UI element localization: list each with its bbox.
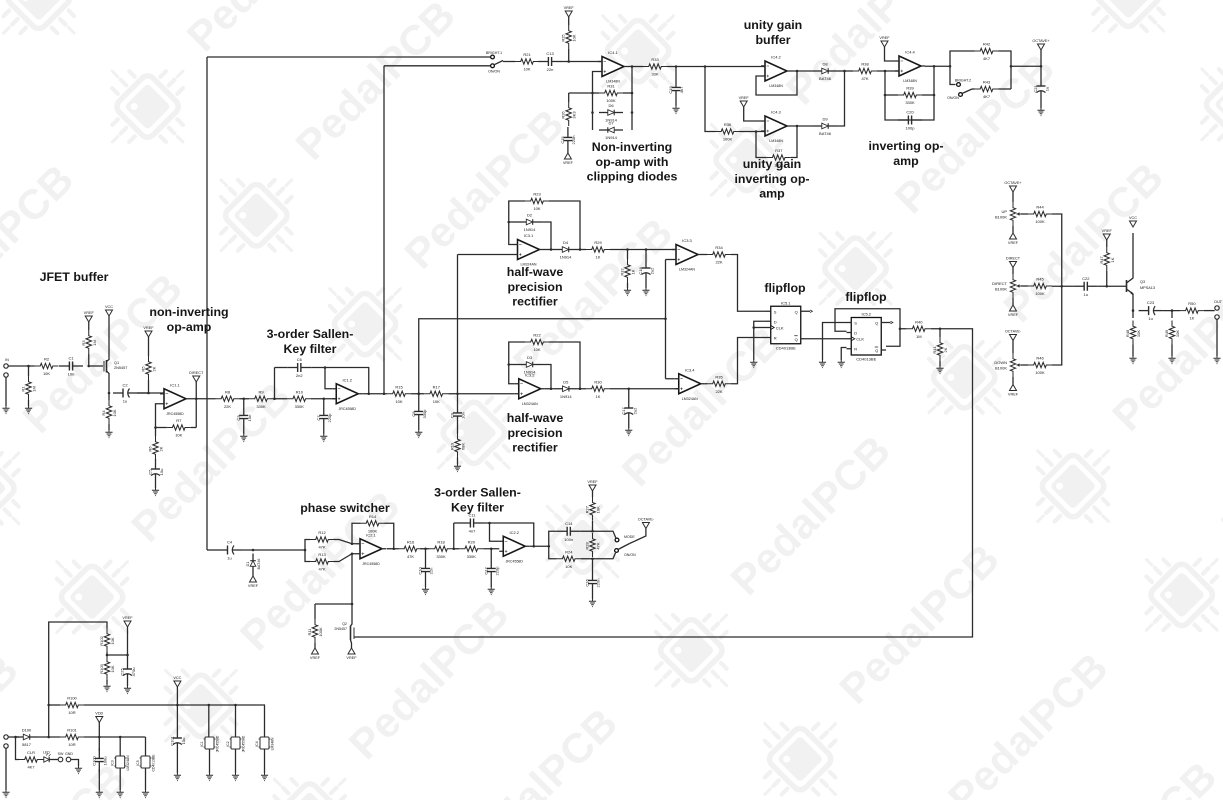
svg-text:1N914: 1N914 [524,227,537,232]
node [704,65,707,68]
svg-text:VDD: VDD [95,712,103,716]
wire long feedback B [383,66,385,394]
svg-text:IC3.1: IC3.1 [524,233,534,238]
ground [117,790,124,798]
svg-text:R47: R47 [1099,256,1104,264]
svg-text:C15: C15 [560,136,565,144]
ground [206,773,213,781]
wire [592,491,594,497]
terminal OCTAVE+ [1038,44,1045,50]
wire to phase switcher return [360,329,973,637]
node source [108,392,111,395]
svg-text:D5: D5 [563,379,569,384]
node [627,387,630,390]
svg-text:VREF: VREF [143,326,154,330]
wire [145,768,147,790]
svg-text:R28: R28 [585,542,590,550]
svg-text:2N5457: 2N5457 [114,366,127,370]
node [417,392,420,395]
resistor R13 [310,559,334,564]
svg-text:JRC4558D: JRC4558D [338,407,356,411]
node gate [87,365,90,368]
wire main vertical tap [457,255,459,394]
svg-text:JFET buffer: JFET buffer [40,270,109,284]
svg-text:220p: 220p [327,413,332,423]
svg-text:47K: 47K [861,76,868,81]
ground [124,686,131,694]
capacitor C8 [418,401,420,411]
svg-text:Q: Q [795,309,798,314]
resistor R30 [586,386,610,391]
resistor R29 [586,247,610,252]
capacitor C12 [490,558,492,568]
pad SW [58,757,63,762]
resistor R1 [26,376,31,400]
svg-text:R50: R50 [1188,301,1196,306]
svg-text:MPSA13: MPSA13 [1140,286,1155,290]
svg-text:100K: 100K [774,163,784,168]
op-amp IC4.3 [765,116,787,136]
svg-text:10u: 10u [159,469,164,476]
ground [2,790,9,798]
wire [1012,226,1014,233]
wire lower [549,546,557,559]
svg-text:1M: 1M [916,334,922,339]
resistor R45 [1028,283,1052,288]
svg-text:R37: R37 [775,148,783,153]
ground [625,428,632,436]
svg-text:Q: Q [795,337,798,342]
svg-text:inverting op-: inverting op- [868,139,943,153]
node [14,736,17,739]
svg-text:330K: 330K [256,404,266,409]
wire [667,66,765,68]
svg-text:VREF: VREF [879,36,890,40]
svg-text:VREF: VREF [1008,313,1019,317]
resistor R49 [1169,321,1174,345]
svg-text:B100K: B100K [995,366,1007,371]
capacitor C100 [98,748,100,758]
op-amp IC3.4 [679,374,701,394]
svg-text:LM348N: LM348N [271,737,275,750]
node output [367,392,370,395]
svg-text:220n: 220n [596,579,601,588]
terminal VREF [348,648,355,654]
wire up to C6 [274,368,276,399]
svg-text:R9: R9 [258,389,264,394]
svg-text:C19: C19 [668,86,673,94]
svg-text:C1: C1 [68,356,74,361]
wire [176,752,178,773]
wire minus input [325,368,332,389]
resistor R31 [599,90,623,95]
svg-text:unity gain: unity gain [743,157,802,171]
svg-text:10K: 10K [523,67,530,72]
svg-text:R11: R11 [307,628,312,636]
svg-text:DIRECT: DIRECT [992,281,1007,286]
terminal VREF [589,485,596,491]
node [949,65,952,68]
svg-text:2u2: 2u2 [650,267,655,274]
ground [1213,356,1220,364]
svg-text:VREF: VREF [248,584,259,588]
resistor R38 [853,68,877,73]
wire [71,760,79,767]
svg-text:10K: 10K [1136,330,1141,337]
wire split [305,540,310,551]
svg-text:10u: 10u [181,738,186,745]
wire [877,70,899,72]
ground [838,360,845,368]
wire [791,126,797,158]
svg-text:ON/ON: ON/ON [624,553,636,557]
wire [837,70,853,72]
wire [458,393,515,395]
svg-text:2K: 2K [159,446,164,451]
svg-text:D8: D8 [822,62,828,67]
wire converge [334,540,356,544]
IC1 power JRC4558D [205,737,214,749]
svg-text:UP: UP [1001,209,1007,214]
svg-text:SW: SW [58,752,64,756]
IC5 power CD4013BE [141,756,150,768]
wire [705,383,707,385]
svg-text:VREF: VREF [564,6,575,10]
svg-text:1u: 1u [1045,87,1050,91]
ground [672,106,679,114]
wire [593,92,600,94]
svg-text:IC4.3: IC4.3 [771,110,781,115]
resistor R43 [975,86,999,91]
svg-text:VREF: VREF [587,480,598,484]
ground [2,406,9,414]
wire [549,201,580,250]
ground [232,773,239,781]
terminal VREF [1103,234,1110,240]
wire [545,388,554,390]
jack OUT [1215,306,1219,310]
wire [106,680,108,684]
resistor R41 [937,337,942,361]
flip-flop IC5.1 CD4013BE [771,306,801,344]
svg-text:D1: D1 [246,562,250,567]
svg-text:1M: 1M [92,340,97,346]
svg-text:R31: R31 [607,84,615,89]
svg-text:C18: C18 [638,267,643,275]
svg-text:330K: 330K [905,100,915,105]
wire [418,425,420,430]
wire [628,422,630,428]
capacitor C4 [218,549,228,551]
svg-text:C100: C100 [91,755,96,765]
svg-text:C22: C22 [1082,276,1090,281]
resistor R6 [153,436,158,460]
wire [252,574,254,577]
potentiometer DOWN B100K [1010,353,1015,377]
svg-text:Key filter: Key filter [451,500,504,514]
svg-text:S: S [774,309,777,314]
wire minus [490,523,500,541]
potentiometer DIRECT B100K [1010,274,1015,298]
svg-text:4K7: 4K7 [27,765,35,770]
svg-text:1N914: 1N914 [524,370,537,375]
wire [119,768,121,790]
svg-text:10R: 10R [68,710,75,715]
wire tap left [569,92,593,94]
svg-text:470u: 470u [131,668,136,677]
wire long feedback A [206,57,208,550]
capacitor C9 [457,403,459,413]
ground [142,790,149,798]
svg-text:VREF: VREF [563,161,574,165]
capacitor C20 [898,119,908,121]
wire [8,365,34,367]
svg-text:C11: C11 [468,513,476,518]
svg-text:C3: C3 [236,415,241,421]
terminal DIRECT [193,376,200,382]
wire wiper [1021,364,1028,366]
op-amp IC4.1 [602,57,624,77]
resistor R25 [566,25,571,49]
terminal VREF [565,11,572,17]
wire [1098,285,1127,287]
node [154,426,157,429]
wire [610,388,679,390]
terminal OCTAVE+ right [1010,186,1017,192]
svg-text:220p: 220p [494,566,499,576]
wire [127,683,129,686]
node [417,392,420,395]
svg-text:IC5: IC5 [136,760,140,765]
wire [240,398,250,400]
wire Qbar to FF2 [806,338,847,340]
wire [315,603,352,605]
svg-text:R23: R23 [533,192,541,197]
svg-text:R: R [854,347,857,352]
resistor R39 [898,92,922,97]
svg-text:CD4013BE: CD4013BE [856,357,876,362]
svg-text:flipflop: flipflop [764,281,806,295]
node [591,530,594,533]
svg-text:R42: R42 [983,42,991,47]
svg-text:R17: R17 [433,384,441,389]
resistor R9 [249,396,273,401]
svg-text:R36: R36 [724,122,732,127]
svg-text:DIRECT: DIRECT [189,371,204,375]
node [507,363,510,366]
terminal VREF [85,316,92,322]
wire down [705,67,716,132]
svg-text:R33: R33 [651,57,659,62]
node [752,326,755,329]
capacitor C25 [127,659,129,669]
wire jack sleeve [5,748,7,790]
wire [1216,319,1218,356]
capacitor C22 [1074,285,1084,287]
svg-text:330K: 330K [436,554,446,559]
node [591,92,594,95]
node [351,542,354,545]
svg-text:2K: 2K [152,366,157,371]
node [488,522,491,525]
wire [549,342,580,389]
svg-text:CLK: CLK [856,337,864,342]
op-amp IC3.3 [676,245,698,265]
wire [593,553,616,559]
terminal VCC [1130,221,1137,227]
svg-text:R1: R1 [21,386,26,392]
op-amp IC4.4 [899,56,921,76]
wire up to C11 [453,523,455,549]
node [47,736,50,739]
svg-text:IC4: IC4 [255,741,259,746]
capacitor C17 [628,398,630,408]
svg-text:33K: 33K [651,72,658,77]
terminal VREF [312,648,319,654]
wire [148,337,150,356]
ground [589,599,596,607]
ground [1168,356,1175,364]
wire [311,368,369,394]
svg-text:1K: 1K [1189,316,1194,321]
svg-text:4K7: 4K7 [983,56,991,61]
capacitor C16 [592,570,594,580]
wire [567,151,569,153]
svg-text:R3: R3 [81,340,86,346]
wire input [458,254,514,256]
wire comparator rail [665,260,667,379]
svg-text:non-inverting: non-inverting [149,305,228,319]
svg-text:BRIGHT.1: BRIGHT.1 [486,51,502,55]
svg-text:R44: R44 [1036,205,1044,210]
capacitor C3 [243,405,245,415]
svg-text:buffer: buffer [755,33,790,47]
svg-text:10K: 10K [175,433,182,438]
wire [791,70,813,72]
svg-text:R40: R40 [915,319,923,324]
svg-text:10R: 10R [68,742,75,747]
wire [490,582,492,587]
ground [819,360,826,368]
svg-text:R7: R7 [176,418,182,423]
svg-text:VCC: VCC [105,305,113,309]
ground [75,766,82,774]
svg-text:R12: R12 [318,530,326,535]
svg-text:R34: R34 [715,245,723,250]
svg-text:68K: 68K [461,443,466,450]
terminal VREF [1010,233,1017,239]
wire [127,627,129,659]
svg-text:half-wave: half-wave [507,265,564,279]
svg-text:1M: 1M [32,386,37,392]
svg-text:precision: precision [507,426,562,440]
wire [209,749,211,773]
svg-text:100K: 100K [368,528,378,533]
svg-text:IC3.4: IC3.4 [685,367,695,372]
node [98,736,101,739]
svg-text:10K: 10K [572,34,577,41]
svg-text:op-amp with: op-amp with [596,155,669,169]
terminal DIRECT right [1010,262,1017,268]
svg-text:BAT46: BAT46 [819,76,832,81]
svg-text:1u: 1u [227,556,231,561]
wire feedback [756,71,797,95]
svg-text:VCC: VCC [1129,216,1137,220]
node [1010,65,1013,68]
node [47,704,50,707]
resistor R50 [1180,308,1204,313]
wire gate [89,365,103,367]
svg-text:330p: 330p [422,409,427,419]
wire [275,367,288,369]
ground [454,464,461,472]
wire [628,66,643,68]
resistor R2 [35,363,59,368]
node [1040,65,1043,68]
wire [107,654,128,656]
svg-text:C16: C16 [585,579,590,587]
node [452,547,455,550]
svg-text:GND: GND [65,752,73,756]
svg-text:R14: R14 [369,514,377,519]
node output [796,70,799,73]
wire [627,283,629,288]
ground [936,366,943,374]
wire [243,429,245,434]
wire D/CLK [754,321,766,360]
svg-text:100K: 100K [1035,291,1045,296]
svg-text:LM324AN: LM324AN [521,263,537,267]
capacitor C1 [59,365,69,367]
svg-text:OCTAVE+: OCTAVE+ [1032,39,1050,43]
resistor R11 [312,619,317,643]
diode D3 [518,364,527,366]
wire [314,604,316,619]
resistor R100 [60,702,84,707]
svg-text:D: D [854,331,857,336]
svg-text:R10: R10 [296,389,304,394]
svg-text:LM324AN: LM324AN [522,402,538,406]
svg-text:R29: R29 [594,240,602,245]
resistor R15 [387,391,411,396]
svg-text:47K: 47K [407,554,414,559]
wire [503,61,515,63]
svg-text:JRC4558D: JRC4558D [505,559,523,563]
svg-text:Q2: Q2 [342,622,347,626]
wire [49,704,60,706]
wire [483,548,499,550]
diode D1 [252,554,254,561]
svg-text:C12: C12 [483,567,488,575]
wire [885,94,898,96]
IC4 power LM348N [260,737,269,749]
wire [421,548,430,550]
wire wiper [1021,213,1028,215]
svg-text:100K: 100K [723,137,733,142]
IC3 power LM324AN [116,756,125,768]
svg-text:100K: 100K [1035,370,1045,375]
svg-text:amp: amp [893,154,919,168]
wire [484,523,534,546]
wire [592,594,594,599]
svg-text:DOWN: DOWN [994,360,1007,365]
resistor R17 [424,391,448,396]
wire [885,47,896,61]
node [1171,309,1174,312]
wire [544,249,554,251]
resistor R26 [566,102,571,126]
wire VCC rail [84,705,265,737]
